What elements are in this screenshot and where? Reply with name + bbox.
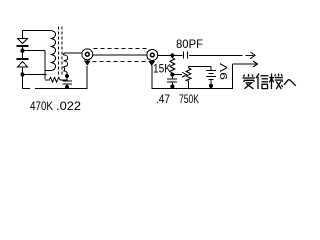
svg-text:80PF: 80PF <box>176 37 203 51</box>
svg-text:.47: .47 <box>156 92 170 106</box>
svg-text:470K: 470K <box>30 99 53 113</box>
svg-text:9V: 9V <box>219 63 230 80</box>
svg-text:750K: 750K <box>179 92 199 106</box>
svg-text:.022: .022 <box>56 99 81 113</box>
svg-text:15K: 15K <box>153 62 171 76</box>
